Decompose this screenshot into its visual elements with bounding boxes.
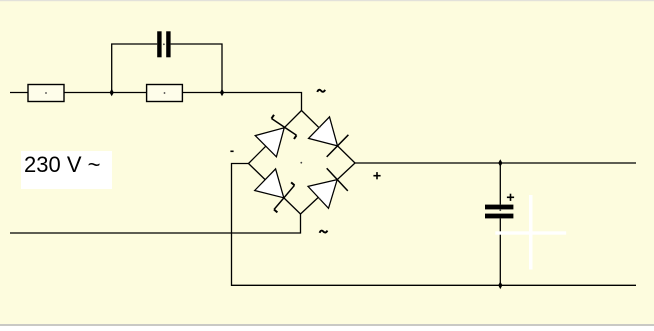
svg-text:230 V ~: 230 V ~ xyxy=(24,152,100,177)
